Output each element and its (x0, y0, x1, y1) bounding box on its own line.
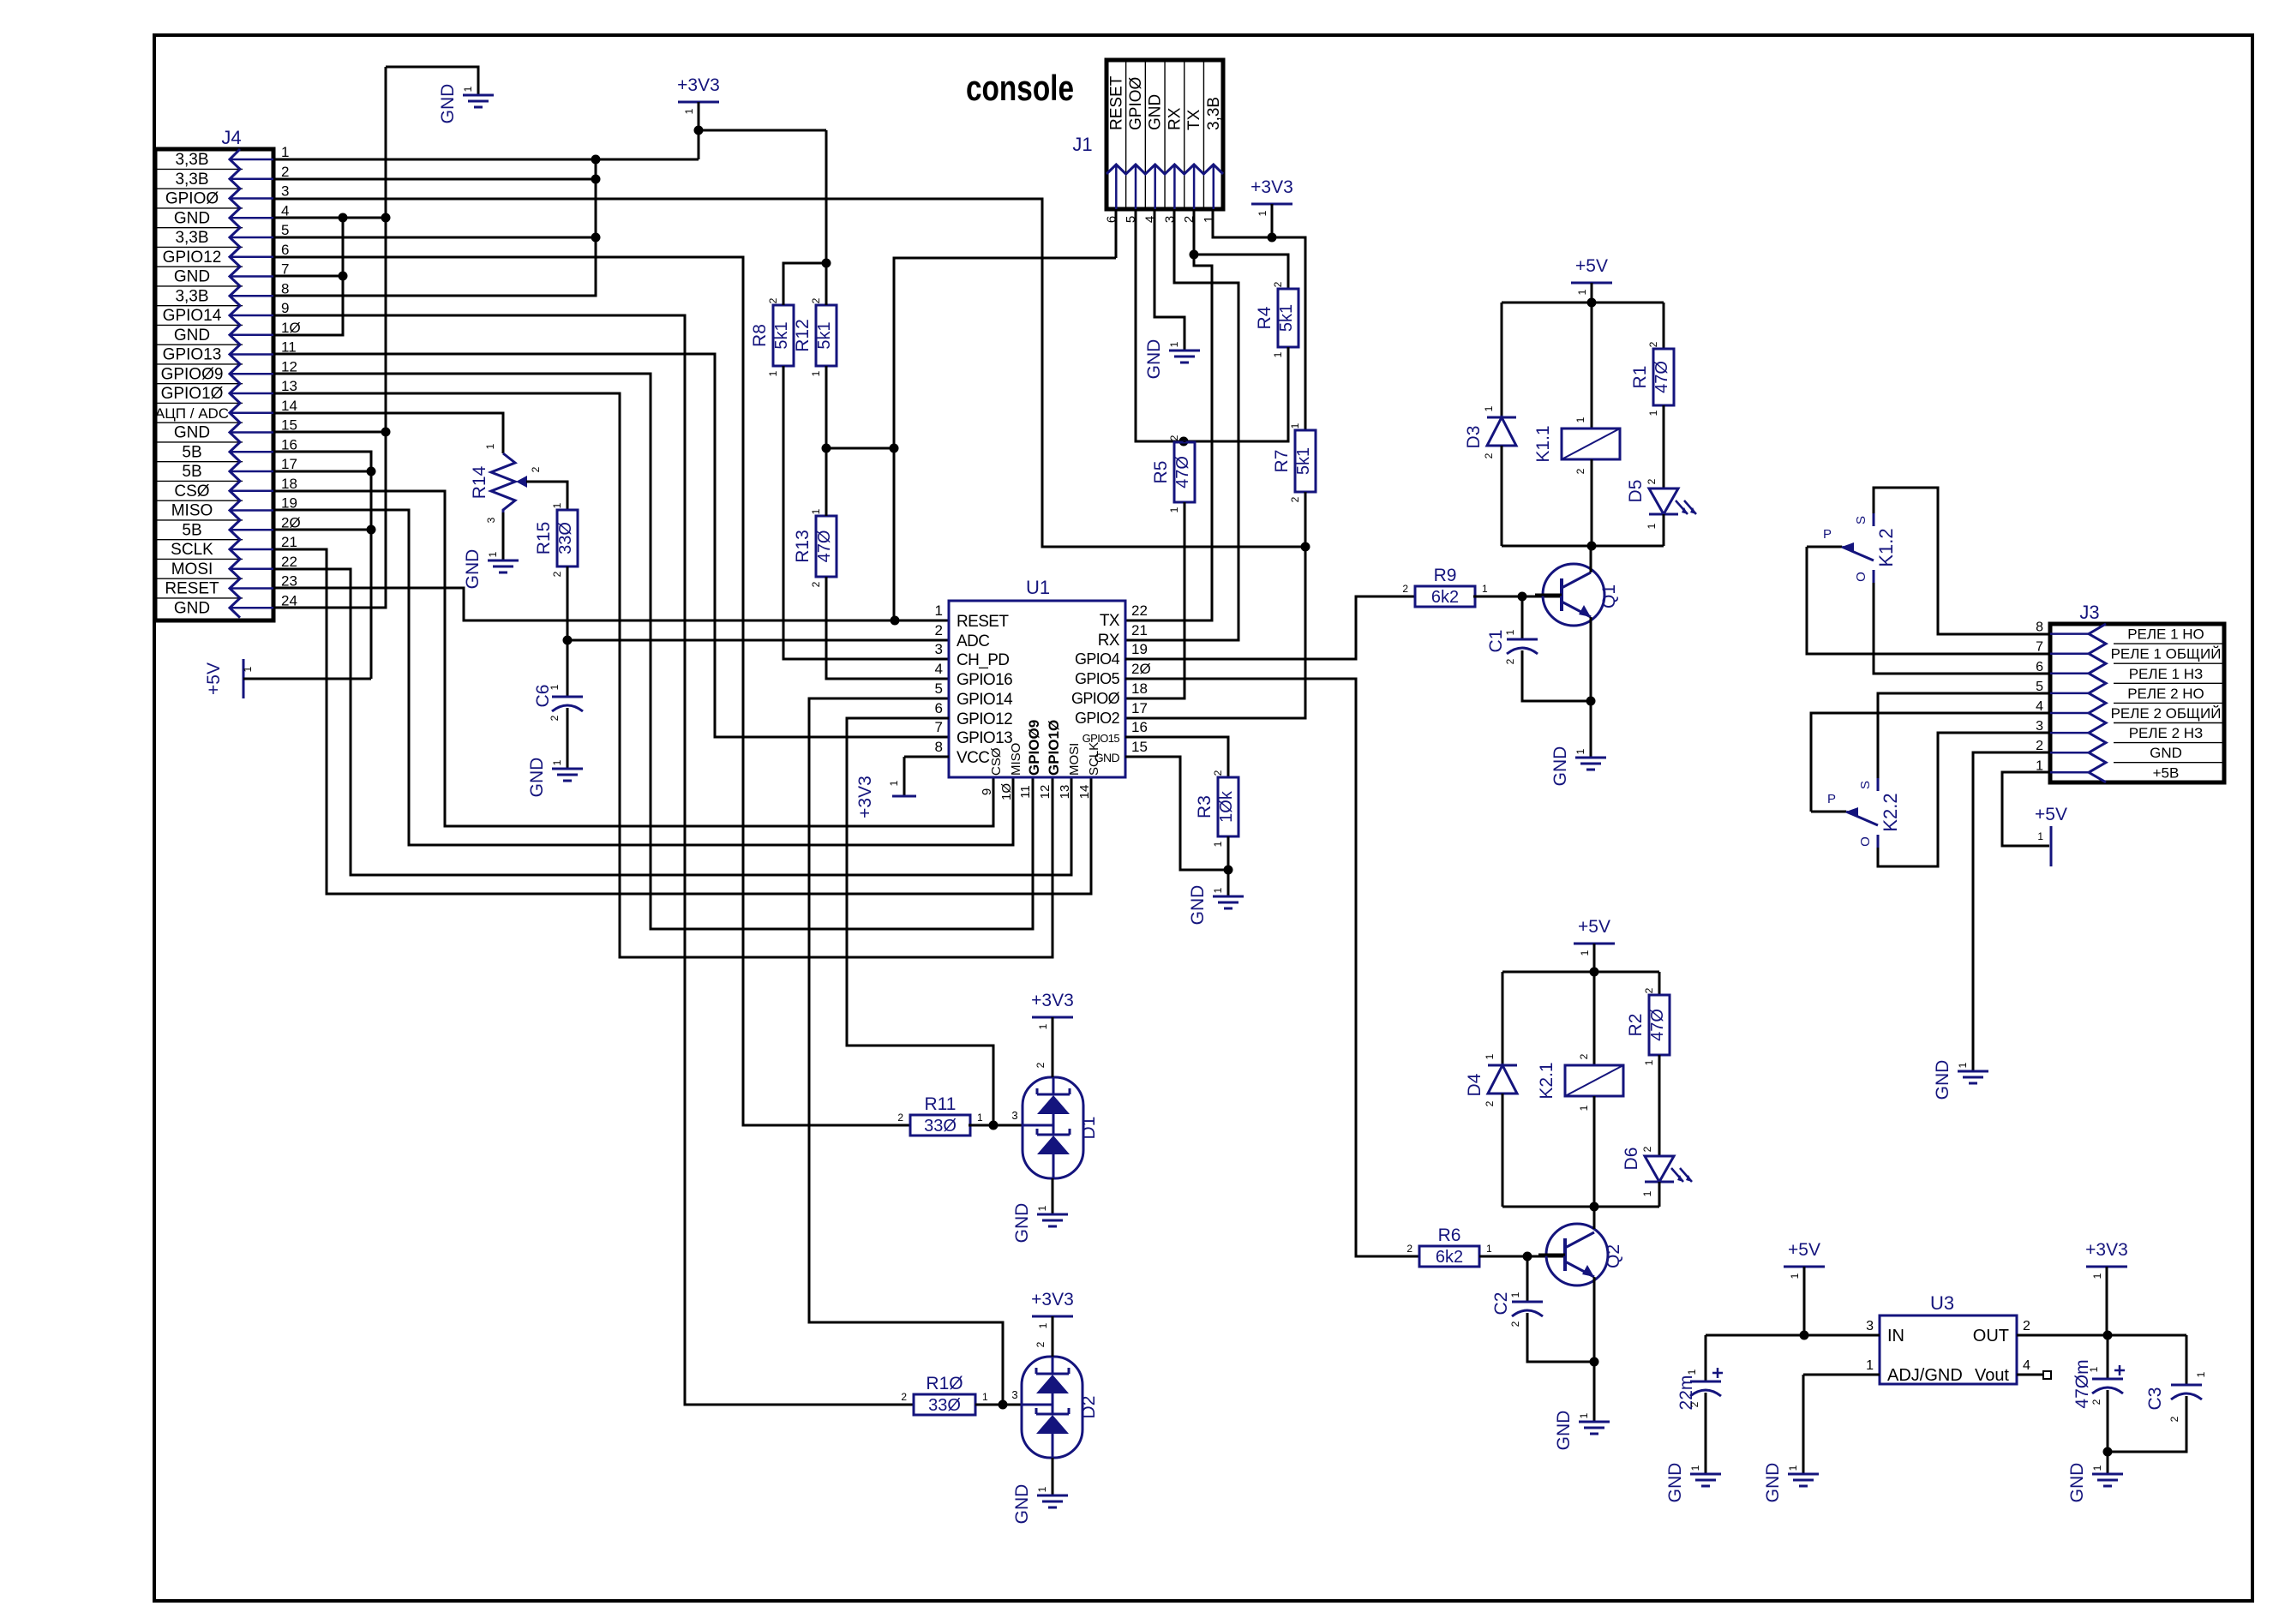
svg-text:8: 8 (2036, 620, 2043, 635)
svg-text:1: 1 (1641, 1190, 1653, 1196)
svg-text:6: 6 (2036, 660, 2043, 674)
svg-text:6: 6 (281, 242, 289, 258)
svg-text:3,3B: 3,3B (1205, 97, 1223, 130)
svg-text:+3V3: +3V3 (1250, 177, 1293, 197)
svg-text:12: 12 (1038, 785, 1053, 800)
svg-text:1: 1 (549, 684, 561, 690)
svg-text:1: 1 (935, 602, 943, 619)
svg-text:2: 2 (1509, 1321, 1521, 1327)
svg-text:17: 17 (1131, 700, 1148, 716)
svg-text:R1Ø: R1Ø (926, 1374, 963, 1393)
svg-text:GPIO12: GPIO12 (163, 249, 222, 267)
svg-text:GPIO4: GPIO4 (1075, 650, 1120, 668)
svg-text:+5V: +5V (2035, 805, 2067, 824)
svg-text:R8: R8 (750, 324, 770, 347)
svg-text:+5V: +5V (1788, 1240, 1820, 1260)
svg-text:VCC: VCC (957, 749, 989, 767)
svg-text:+3V3: +3V3 (677, 75, 720, 95)
svg-text:2: 2 (1035, 1341, 1047, 1347)
svg-text:GND: GND (174, 268, 210, 286)
svg-text:2: 2 (1289, 496, 1301, 502)
svg-text:1: 1 (2037, 830, 2043, 842)
svg-text:1: 1 (551, 759, 563, 765)
svg-text:2: 2 (2168, 1416, 2180, 1422)
svg-text:1: 1 (1574, 416, 1586, 422)
svg-text:R14: R14 (470, 465, 489, 499)
svg-text:IN: IN (1887, 1327, 1904, 1345)
svg-text:3: 3 (2036, 719, 2043, 734)
svg-text:18: 18 (281, 476, 297, 492)
svg-text:1: 1 (281, 144, 289, 160)
svg-text:CH_PD: CH_PD (957, 651, 1009, 669)
svg-text:1: 1 (2195, 1371, 2207, 1377)
svg-text:1: 1 (1789, 1273, 1801, 1279)
svg-text:1: 1 (1037, 1023, 1049, 1029)
svg-text:1: 1 (2091, 1465, 2103, 1471)
svg-text:6: 6 (935, 700, 943, 716)
svg-text:GND: GND (438, 84, 458, 124)
svg-text:5B: 5B (182, 521, 201, 539)
svg-text:R15: R15 (534, 522, 554, 555)
svg-text:O: O (1854, 572, 1868, 582)
svg-text:2Ø: 2Ø (1131, 661, 1151, 677)
svg-text:R1: R1 (1630, 366, 1650, 389)
svg-text:GND: GND (2067, 1463, 2087, 1503)
svg-text:1: 1 (1036, 1486, 1048, 1492)
svg-text:3,3B: 3,3B (175, 287, 208, 305)
svg-text:+5V: +5V (204, 662, 224, 695)
svg-text:21: 21 (281, 534, 297, 550)
svg-text:R7: R7 (1272, 450, 1292, 473)
svg-text:7: 7 (935, 719, 943, 735)
svg-text:GPIOØ: GPIOØ (165, 190, 219, 208)
svg-text:O: O (1858, 836, 1873, 847)
svg-text:6k2: 6k2 (1431, 588, 1459, 607)
svg-text:1Øk: 1Øk (1217, 790, 1236, 823)
svg-text:2: 2 (530, 466, 542, 472)
svg-text:2: 2 (2090, 1399, 2102, 1405)
svg-text:9: 9 (281, 300, 289, 316)
svg-text:33Ø: 33Ø (928, 1396, 961, 1415)
svg-text:3: 3 (1866, 1319, 1874, 1333)
svg-text:2: 2 (1483, 452, 1495, 458)
svg-text:R13: R13 (793, 530, 813, 563)
svg-text:GND: GND (1550, 746, 1570, 787)
svg-text:GND: GND (2150, 745, 2182, 761)
svg-text:5: 5 (2036, 680, 2043, 694)
svg-text:47Ø: 47Ø (1648, 1009, 1667, 1041)
svg-text:2: 2 (1212, 770, 1224, 776)
svg-text:R5: R5 (1151, 461, 1171, 484)
svg-text:J4: J4 (221, 127, 241, 148)
svg-text:2: 2 (810, 581, 822, 587)
svg-text:2: 2 (1688, 1401, 1700, 1407)
svg-text:24: 24 (281, 592, 297, 608)
svg-text:U1: U1 (1026, 577, 1050, 598)
svg-text:D4: D4 (1465, 1073, 1484, 1096)
svg-text:2: 2 (1643, 987, 1655, 993)
svg-text:K2.1: K2.1 (1537, 1062, 1556, 1099)
svg-text:K1.1: K1.1 (1533, 425, 1553, 462)
svg-text:2: 2 (1641, 1146, 1653, 1152)
svg-text:GPIO2: GPIO2 (1075, 710, 1120, 727)
svg-text:1: 1 (487, 551, 499, 557)
svg-text:GND: GND (174, 327, 210, 345)
svg-text:2: 2 (1272, 281, 1284, 287)
svg-text:GND: GND (174, 209, 210, 227)
svg-text:GPIO13: GPIO13 (957, 729, 1012, 747)
svg-text:4: 4 (2036, 699, 2043, 714)
svg-text:GND: GND (174, 424, 210, 442)
svg-text:GND: GND (1933, 1060, 1952, 1100)
svg-text:GPIO14: GPIO14 (957, 691, 1013, 709)
svg-text:GPIOØ9: GPIOØ9 (161, 365, 224, 383)
svg-text:1: 1 (1866, 1358, 1874, 1373)
svg-text:13: 13 (281, 378, 297, 394)
svg-text:1: 1 (810, 508, 822, 514)
svg-text:D5: D5 (1626, 480, 1646, 503)
svg-text:1: 1 (1643, 1059, 1655, 1065)
svg-text:U3: U3 (1930, 1292, 1954, 1314)
svg-text:TX: TX (1100, 612, 1120, 630)
svg-text:1: 1 (1168, 341, 1180, 347)
svg-text:1: 1 (683, 108, 695, 114)
svg-text:GPIO13: GPIO13 (163, 346, 222, 364)
svg-text:GND: GND (174, 599, 210, 617)
svg-text:RESET: RESET (1107, 75, 1125, 130)
svg-text:+5V: +5V (1575, 256, 1608, 276)
svg-text:1: 1 (1212, 841, 1224, 847)
svg-text:2: 2 (767, 297, 779, 303)
svg-text:2: 2 (1484, 1100, 1496, 1106)
svg-text:1: 1 (888, 780, 900, 786)
svg-text:1: 1 (810, 370, 822, 376)
svg-text:3: 3 (935, 641, 943, 657)
svg-text:1: 1 (1504, 629, 1516, 635)
svg-text:C3: C3 (2145, 1387, 2165, 1411)
svg-text:5: 5 (281, 222, 289, 238)
svg-text:7: 7 (2036, 640, 2043, 655)
svg-text:5B: 5B (182, 463, 201, 481)
svg-text:11: 11 (1018, 785, 1033, 799)
svg-text:РЕЛЕ 2 ОБЩИЙ: РЕЛЕ 2 ОБЩИЙ (2111, 705, 2222, 722)
svg-text:2: 2 (897, 1112, 903, 1124)
svg-text:1: 1 (1289, 422, 1301, 428)
svg-text:5k1: 5k1 (815, 321, 834, 349)
svg-text:TX: TX (1185, 109, 1203, 130)
svg-text:1: 1 (1787, 1465, 1799, 1471)
svg-text:13: 13 (1058, 785, 1072, 800)
svg-text:R12: R12 (793, 319, 813, 352)
svg-text:ADC: ADC (957, 632, 989, 650)
svg-text:R9: R9 (1434, 566, 1457, 585)
svg-text:5: 5 (935, 680, 943, 697)
svg-text:GND: GND (1188, 885, 1208, 926)
svg-text:2: 2 (810, 297, 822, 303)
svg-text:2: 2 (1402, 583, 1408, 595)
svg-text:D6: D6 (1622, 1148, 1641, 1171)
svg-text:1: 1 (1486, 1243, 1492, 1255)
svg-text:MOSI: MOSI (171, 560, 213, 578)
svg-text:1: 1 (2088, 1366, 2100, 1372)
svg-text:ADJ/GND: ADJ/GND (1887, 1366, 1963, 1385)
svg-text:РЕЛЕ 1 НЗ: РЕЛЕ 1 НЗ (2129, 666, 2204, 682)
svg-text:P: P (1823, 527, 1832, 542)
svg-text:R6: R6 (1438, 1225, 1461, 1245)
svg-text:16: 16 (1131, 719, 1148, 735)
svg-text:SCLK: SCLK (1087, 742, 1101, 776)
svg-text:OUT: OUT (1973, 1327, 2009, 1345)
svg-text:GND: GND (463, 549, 483, 590)
svg-text:D2: D2 (1079, 1396, 1099, 1419)
svg-text:1: 1 (242, 666, 254, 672)
svg-text:+5V: +5V (1578, 917, 1610, 937)
svg-text:K1.2: K1.2 (1875, 528, 1897, 566)
svg-text:+3V3: +3V3 (1031, 991, 1074, 1010)
svg-text:RESET: RESET (957, 613, 1009, 631)
svg-text:GPIO1Ø: GPIO1Ø (1046, 720, 1062, 776)
svg-text:1: 1 (982, 1391, 988, 1403)
svg-text:1: 1 (1484, 1053, 1496, 1059)
svg-text:18: 18 (1131, 680, 1148, 697)
svg-text:GPIO16: GPIO16 (957, 671, 1012, 689)
svg-text:GPIOØ: GPIOØ (1071, 690, 1120, 707)
svg-text:2: 2 (2023, 1319, 2030, 1333)
svg-text:2: 2 (1646, 478, 1658, 484)
svg-text:GPIOØ: GPIOØ (1127, 76, 1145, 130)
svg-text:21: 21 (1131, 622, 1148, 638)
svg-text:C1: C1 (1486, 630, 1506, 653)
svg-text:SCLK: SCLK (171, 541, 213, 559)
svg-text:R4: R4 (1255, 306, 1274, 329)
svg-text:GPIO12: GPIO12 (957, 710, 1012, 728)
svg-text:1: 1 (551, 502, 563, 508)
svg-text:J3: J3 (2079, 602, 2099, 623)
svg-text:D1: D1 (1079, 1117, 1099, 1140)
svg-text:1: 1 (1574, 748, 1586, 754)
svg-text:47Ø: 47Ø (1173, 456, 1192, 488)
svg-text:K2.2: K2.2 (1880, 793, 1901, 831)
svg-text:Q2: Q2 (1604, 1244, 1623, 1268)
svg-text:GND: GND (1012, 1484, 1032, 1525)
svg-text:RX: RX (1098, 632, 1120, 650)
svg-text:1: 1 (1482, 583, 1488, 595)
svg-text:8: 8 (935, 739, 943, 755)
svg-text:3: 3 (281, 183, 289, 200)
svg-text:2: 2 (1035, 1062, 1047, 1068)
svg-text:4: 4 (281, 202, 289, 219)
svg-text:D3: D3 (1464, 426, 1484, 449)
svg-text:CSØ: CSØ (174, 482, 209, 500)
svg-text:GND: GND (1763, 1463, 1783, 1503)
svg-text:5k1: 5k1 (1277, 304, 1296, 332)
svg-text:3: 3 (485, 517, 497, 523)
svg-text:RX: RX (1166, 107, 1184, 130)
svg-text:1: 1 (1686, 1369, 1698, 1375)
svg-text:1: 1 (462, 86, 474, 92)
svg-text:GPIO14: GPIO14 (163, 307, 222, 325)
svg-text:22: 22 (1131, 602, 1148, 619)
svg-text:1: 1 (1483, 405, 1495, 411)
svg-text:+3V3: +3V3 (855, 776, 875, 818)
svg-text:Q1: Q1 (1599, 584, 1619, 608)
svg-text:R11: R11 (925, 1094, 957, 1114)
svg-text:2: 2 (281, 164, 289, 180)
svg-text:1: 1 (1509, 1291, 1521, 1297)
svg-text:РЕЛЕ 1 ОБЩИЙ: РЕЛЕ 1 ОБЩИЙ (2111, 646, 2222, 662)
svg-text:1Ø: 1Ø (999, 783, 1014, 800)
svg-text:19: 19 (1131, 641, 1148, 657)
svg-text:GPIO5: GPIO5 (1075, 670, 1120, 687)
svg-text:C2: C2 (1491, 1292, 1511, 1315)
svg-text:1: 1 (484, 443, 496, 449)
svg-text:1: 1 (1212, 887, 1224, 893)
svg-text:4: 4 (2023, 1358, 2030, 1373)
svg-text:22: 22 (281, 554, 297, 570)
svg-text:GND: GND (1147, 94, 1165, 130)
svg-text:14: 14 (1077, 785, 1092, 800)
svg-text:РЕЛЕ 2 НО: РЕЛЕ 2 НО (2127, 686, 2204, 702)
svg-text:2: 2 (1578, 1053, 1590, 1059)
svg-text:1: 1 (1576, 289, 1588, 295)
svg-text:1: 1 (1647, 410, 1659, 416)
svg-text:8: 8 (281, 280, 289, 297)
svg-text:S: S (1858, 781, 1873, 789)
svg-text:CSØ: CSØ (989, 747, 1004, 776)
svg-text:3: 3 (1011, 1109, 1017, 1122)
svg-text:MISO: MISO (171, 502, 213, 520)
svg-text:6k2: 6k2 (1436, 1248, 1463, 1267)
svg-text:1Ø: 1Ø (281, 320, 301, 336)
svg-text:2: 2 (935, 622, 943, 638)
svg-text:J1: J1 (1072, 134, 1092, 155)
svg-text:MOSI: MOSI (1067, 743, 1082, 776)
svg-text:1: 1 (1037, 1322, 1049, 1328)
svg-text:16: 16 (281, 436, 297, 452)
svg-text:1: 1 (1578, 1412, 1590, 1418)
svg-text:15: 15 (1131, 739, 1148, 755)
svg-text:GPIOØ9: GPIOØ9 (1026, 720, 1042, 776)
svg-text:РЕЛЕ 1 НО: РЕЛЕ 1 НО (2127, 626, 2204, 643)
svg-text:S: S (1854, 516, 1868, 524)
svg-text:GND: GND (1012, 1203, 1032, 1243)
svg-text:АЦП / ADC: АЦП / ADC (155, 405, 229, 422)
svg-text:+5В: +5В (2153, 764, 2180, 781)
svg-text:2Ø: 2Ø (281, 514, 301, 530)
svg-text:console: console (966, 68, 1074, 108)
svg-text:5k1: 5k1 (772, 321, 791, 349)
svg-text:РЕЛЕ 2 НЗ: РЕЛЕ 2 НЗ (2129, 725, 2204, 741)
svg-text:3,3B: 3,3B (175, 229, 208, 247)
svg-text:1: 1 (1957, 1062, 1969, 1068)
svg-text:1: 1 (1036, 1205, 1048, 1211)
svg-text:12: 12 (281, 358, 297, 375)
svg-text:2: 2 (551, 571, 563, 577)
svg-text:2: 2 (901, 1391, 907, 1403)
svg-text:3,3B: 3,3B (175, 151, 208, 169)
svg-text:P: P (1827, 792, 1836, 806)
svg-text:1: 1 (1168, 506, 1180, 512)
svg-text:3,3B: 3,3B (175, 171, 208, 189)
svg-text:9: 9 (980, 788, 994, 795)
svg-text:+3V3: +3V3 (2085, 1240, 2128, 1260)
svg-text:GND: GND (527, 758, 547, 798)
svg-text:2: 2 (549, 715, 561, 721)
svg-text:1: 1 (2091, 1273, 2103, 1279)
svg-text:2: 2 (1168, 434, 1180, 440)
svg-text:GND: GND (1554, 1411, 1574, 1451)
svg-text:2: 2 (1647, 341, 1659, 347)
svg-text:33Ø: 33Ø (556, 522, 575, 554)
svg-text:4: 4 (935, 661, 943, 677)
svg-text:1: 1 (1578, 1105, 1590, 1111)
svg-text:5k1: 5k1 (1294, 447, 1313, 475)
svg-text:R3: R3 (1195, 795, 1214, 818)
svg-text:2: 2 (1574, 468, 1586, 474)
svg-text:47Ø: 47Ø (1652, 361, 1671, 393)
svg-text:MISO: MISO (1009, 743, 1023, 776)
svg-text:5B: 5B (182, 443, 201, 461)
svg-text:47Ø: 47Ø (815, 530, 834, 563)
svg-text:R2: R2 (1626, 1014, 1646, 1037)
svg-text:1: 1 (1646, 523, 1658, 529)
svg-text:3: 3 (1011, 1388, 1017, 1401)
svg-text:17: 17 (281, 456, 297, 472)
svg-text:GPIO1Ø: GPIO1Ø (161, 385, 224, 403)
svg-text:33Ø: 33Ø (924, 1117, 957, 1136)
svg-text:1: 1 (1689, 1465, 1701, 1471)
svg-text:2: 2 (1406, 1243, 1412, 1255)
svg-text:1: 1 (977, 1112, 983, 1124)
svg-text:GND: GND (1144, 339, 1164, 380)
svg-text:RESET: RESET (165, 580, 219, 598)
svg-text:1: 1 (1579, 950, 1591, 956)
svg-text:1: 1 (1272, 351, 1284, 357)
svg-text:+3V3: +3V3 (1031, 1290, 1074, 1309)
svg-text:GND: GND (1665, 1463, 1685, 1503)
svg-text:2: 2 (1504, 658, 1516, 664)
svg-text:Vout: Vout (1975, 1366, 2009, 1385)
svg-text:14: 14 (281, 398, 297, 414)
svg-text:1: 1 (1256, 210, 1268, 216)
svg-text:1: 1 (767, 370, 779, 376)
